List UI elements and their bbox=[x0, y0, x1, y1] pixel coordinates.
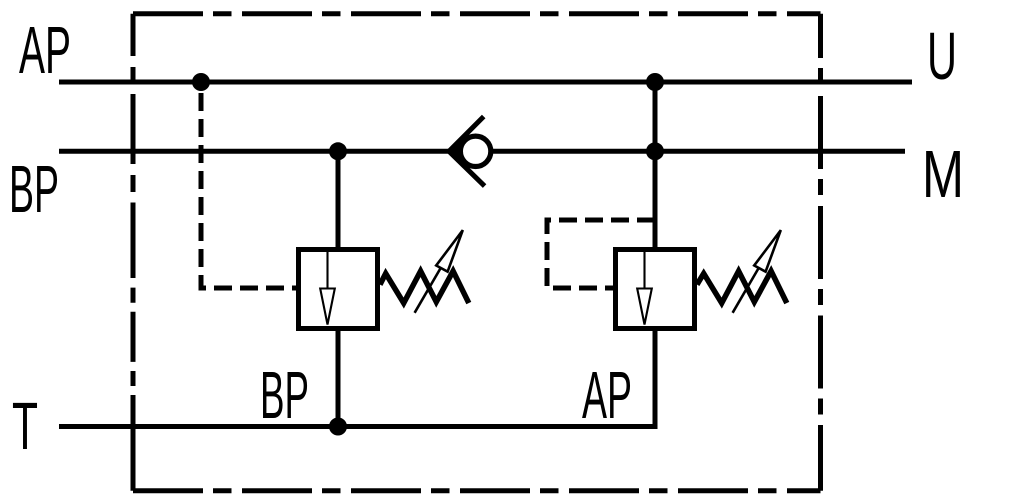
node: junction dot BP / valve V1 branch bbox=[329, 142, 347, 160]
port line BP-M (left part) bbox=[59, 149, 449, 154]
spring of valve V2 bbox=[697, 271, 787, 303]
svg-text:BP: BP bbox=[260, 358, 309, 433]
wire: vertical from node on BP down to valve V1 bbox=[336, 151, 341, 249]
relief valve V1 body (square) bbox=[299, 250, 378, 329]
adjustment arrow of valve V1 bbox=[415, 230, 463, 313]
check valve ball (circle) bbox=[460, 136, 490, 166]
node: junction dot AP / vertical bbox=[646, 73, 664, 91]
relief valve V1 internal flow arrow bbox=[320, 250, 335, 325]
svg-text:T: T bbox=[12, 389, 38, 464]
port line AP (top) bbox=[59, 80, 912, 85]
svg-text:BP: BP bbox=[9, 152, 59, 227]
check valve seat lines bbox=[449, 117, 485, 187]
port line T (bottom) with corner up to valve V2 bbox=[59, 331, 655, 427]
svg-text:U: U bbox=[927, 19, 957, 94]
spring of valve V1 bbox=[380, 271, 469, 303]
wire: valve V1 bottom to T line bbox=[336, 329, 341, 427]
port line BP-M (right part) bbox=[493, 149, 905, 154]
enclosure border (dash-dot) bbox=[133, 14, 821, 491]
relief valve V2 internal flow arrow bbox=[637, 250, 652, 325]
node: junction dot on AP at pilot takeoff bbox=[192, 73, 210, 91]
node: junction dot BP-M / vertical bbox=[646, 142, 664, 160]
svg-text:AP: AP bbox=[19, 13, 71, 88]
pilot line (dashed) loop to valve V2 bbox=[547, 220, 655, 288]
svg-text:AP: AP bbox=[582, 358, 632, 433]
check valve on BP-M line: seat wedge bbox=[449, 137, 463, 165]
pilot line (dashed) from AP node to valve V1 bbox=[201, 93, 296, 288]
adjustment arrow of valve V2 bbox=[733, 230, 781, 313]
svg-text:M: M bbox=[922, 137, 964, 212]
node: junction dot on T line bbox=[329, 418, 347, 436]
relief valve V2 body (square) bbox=[616, 250, 695, 329]
wire: vertical from node on AP down to valve V2 bbox=[653, 82, 658, 249]
